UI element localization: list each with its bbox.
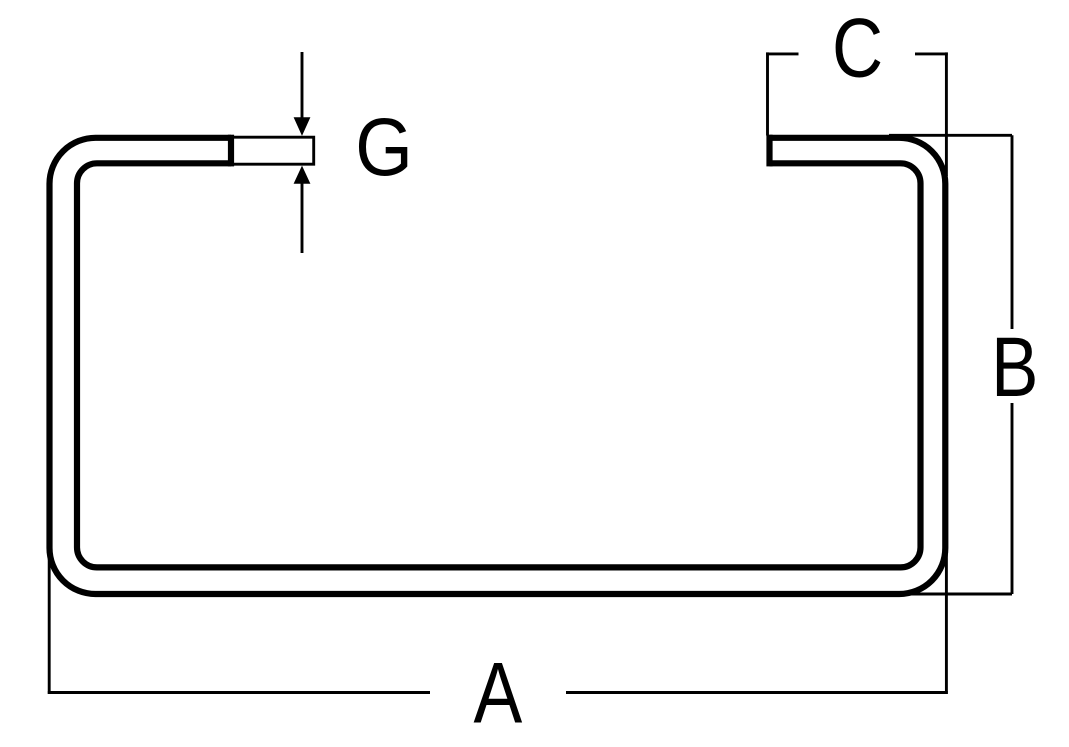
dimension G upper arrow line (301, 52, 304, 118)
dimension C right tick (915, 52, 948, 55)
dimension C right witness line (945, 52, 948, 176)
gauge thickness callout box G (231, 137, 314, 164)
svg-text:A: A (474, 645, 523, 741)
dimension B top witness line (889, 134, 1012, 137)
dimension A left witness line (48, 540, 51, 694)
dimension B line lower segment (1011, 403, 1014, 594)
dimension A right witness line (945, 540, 948, 694)
right lip end cap (766, 135, 772, 167)
dimension A line left segment (48, 691, 430, 694)
dimension G upper arrowhead (294, 117, 311, 136)
svg-text:B: B (991, 319, 1038, 414)
dimension G lower arrowhead (294, 166, 311, 184)
dimension A line right segment (566, 691, 948, 694)
dimension B bottom witness line (898, 593, 1012, 596)
channel profile inner contour (77, 163, 921, 567)
svg-text:G: G (355, 103, 413, 193)
dimension C left tick (766, 52, 798, 55)
channel profile outer contour (50, 138, 946, 594)
left lip end cap (228, 135, 234, 167)
dimension B line upper segment (1011, 135, 1014, 329)
dimension G lower arrow line (301, 183, 304, 253)
svg-text:C: C (832, 2, 883, 95)
dimension C left witness line (766, 52, 769, 135)
